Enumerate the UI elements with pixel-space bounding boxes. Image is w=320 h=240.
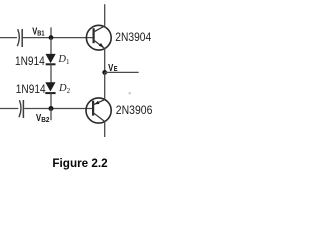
wire C2 to base of Q2 bbox=[24, 108, 93, 110]
node VE junction dot bbox=[102, 70, 107, 75]
transistor Q1 collector wire up bbox=[104, 4, 106, 26]
capacitor C1 straight plate bbox=[21, 29, 23, 47]
transistor Q1 emitter diagonal bbox=[94, 40, 105, 48]
transistor Q1 emitter arrowhead bbox=[99, 43, 104, 47]
svg-text:2N3904: 2N3904 bbox=[115, 30, 151, 44]
artifact speck bbox=[129, 92, 131, 94]
svg-text:1N914: 1N914 bbox=[16, 82, 46, 96]
node VB2 junction dot bbox=[49, 106, 54, 111]
svg-text:VB1: VB1 bbox=[32, 26, 44, 37]
transistor Q2 collector diagonal bbox=[93, 113, 105, 122]
transistor Q2 collector wire down bbox=[104, 122, 106, 138]
svg-text:D2: D2 bbox=[58, 83, 71, 95]
wire junction VB1 down to D1 bbox=[50, 38, 52, 55]
transistor Q1 base bar bbox=[92, 28, 94, 43]
diode D1 cathode bar bbox=[46, 63, 56, 65]
transistor Q2 base bar bbox=[92, 101, 94, 116]
wire VE to Q2 emitter bbox=[104, 72, 106, 99]
svg-text:VE: VE bbox=[108, 62, 118, 74]
diode D2 triangle bbox=[46, 83, 55, 91]
wire D2 to junction VB2 bbox=[50, 93, 52, 108]
transistor Q2 emitter diagonal bbox=[94, 100, 105, 105]
node VB2 stub bbox=[50, 109, 52, 121]
transistor Q2 2N3906 circle bbox=[86, 98, 111, 123]
wire bottom-left input bbox=[0, 108, 18, 110]
capacitor C2 curved plate bbox=[19, 100, 21, 117]
wire VE output bbox=[105, 71, 139, 73]
wire D1 to D2 bbox=[50, 64, 52, 82]
svg-text:1N914: 1N914 bbox=[15, 54, 45, 68]
svg-text:D1: D1 bbox=[57, 54, 70, 66]
wire Q1 emitter to node VE bbox=[104, 48, 106, 72]
node VB1 stub bbox=[50, 27, 52, 37]
node VB1 junction dot bbox=[49, 35, 54, 40]
diode D1 triangle bbox=[46, 54, 55, 62]
capacitor C2 straight plate bbox=[22, 100, 24, 118]
transistor Q2 emitter arrowhead bbox=[95, 101, 100, 105]
diode D2 cathode bar bbox=[45, 92, 55, 94]
capacitor C1 curved plate bbox=[17, 29, 19, 46]
transistor Q1 2N3904 circle bbox=[86, 25, 111, 50]
svg-text:Figure 2.2: Figure 2.2 bbox=[52, 156, 108, 170]
wire C1 to base of Q1 bbox=[23, 37, 94, 39]
svg-text:VB2: VB2 bbox=[36, 113, 49, 124]
wire top-left input bbox=[0, 37, 17, 39]
transistor Q1 collector diagonal bbox=[94, 26, 105, 32]
svg-text:2N3906: 2N3906 bbox=[116, 103, 153, 117]
